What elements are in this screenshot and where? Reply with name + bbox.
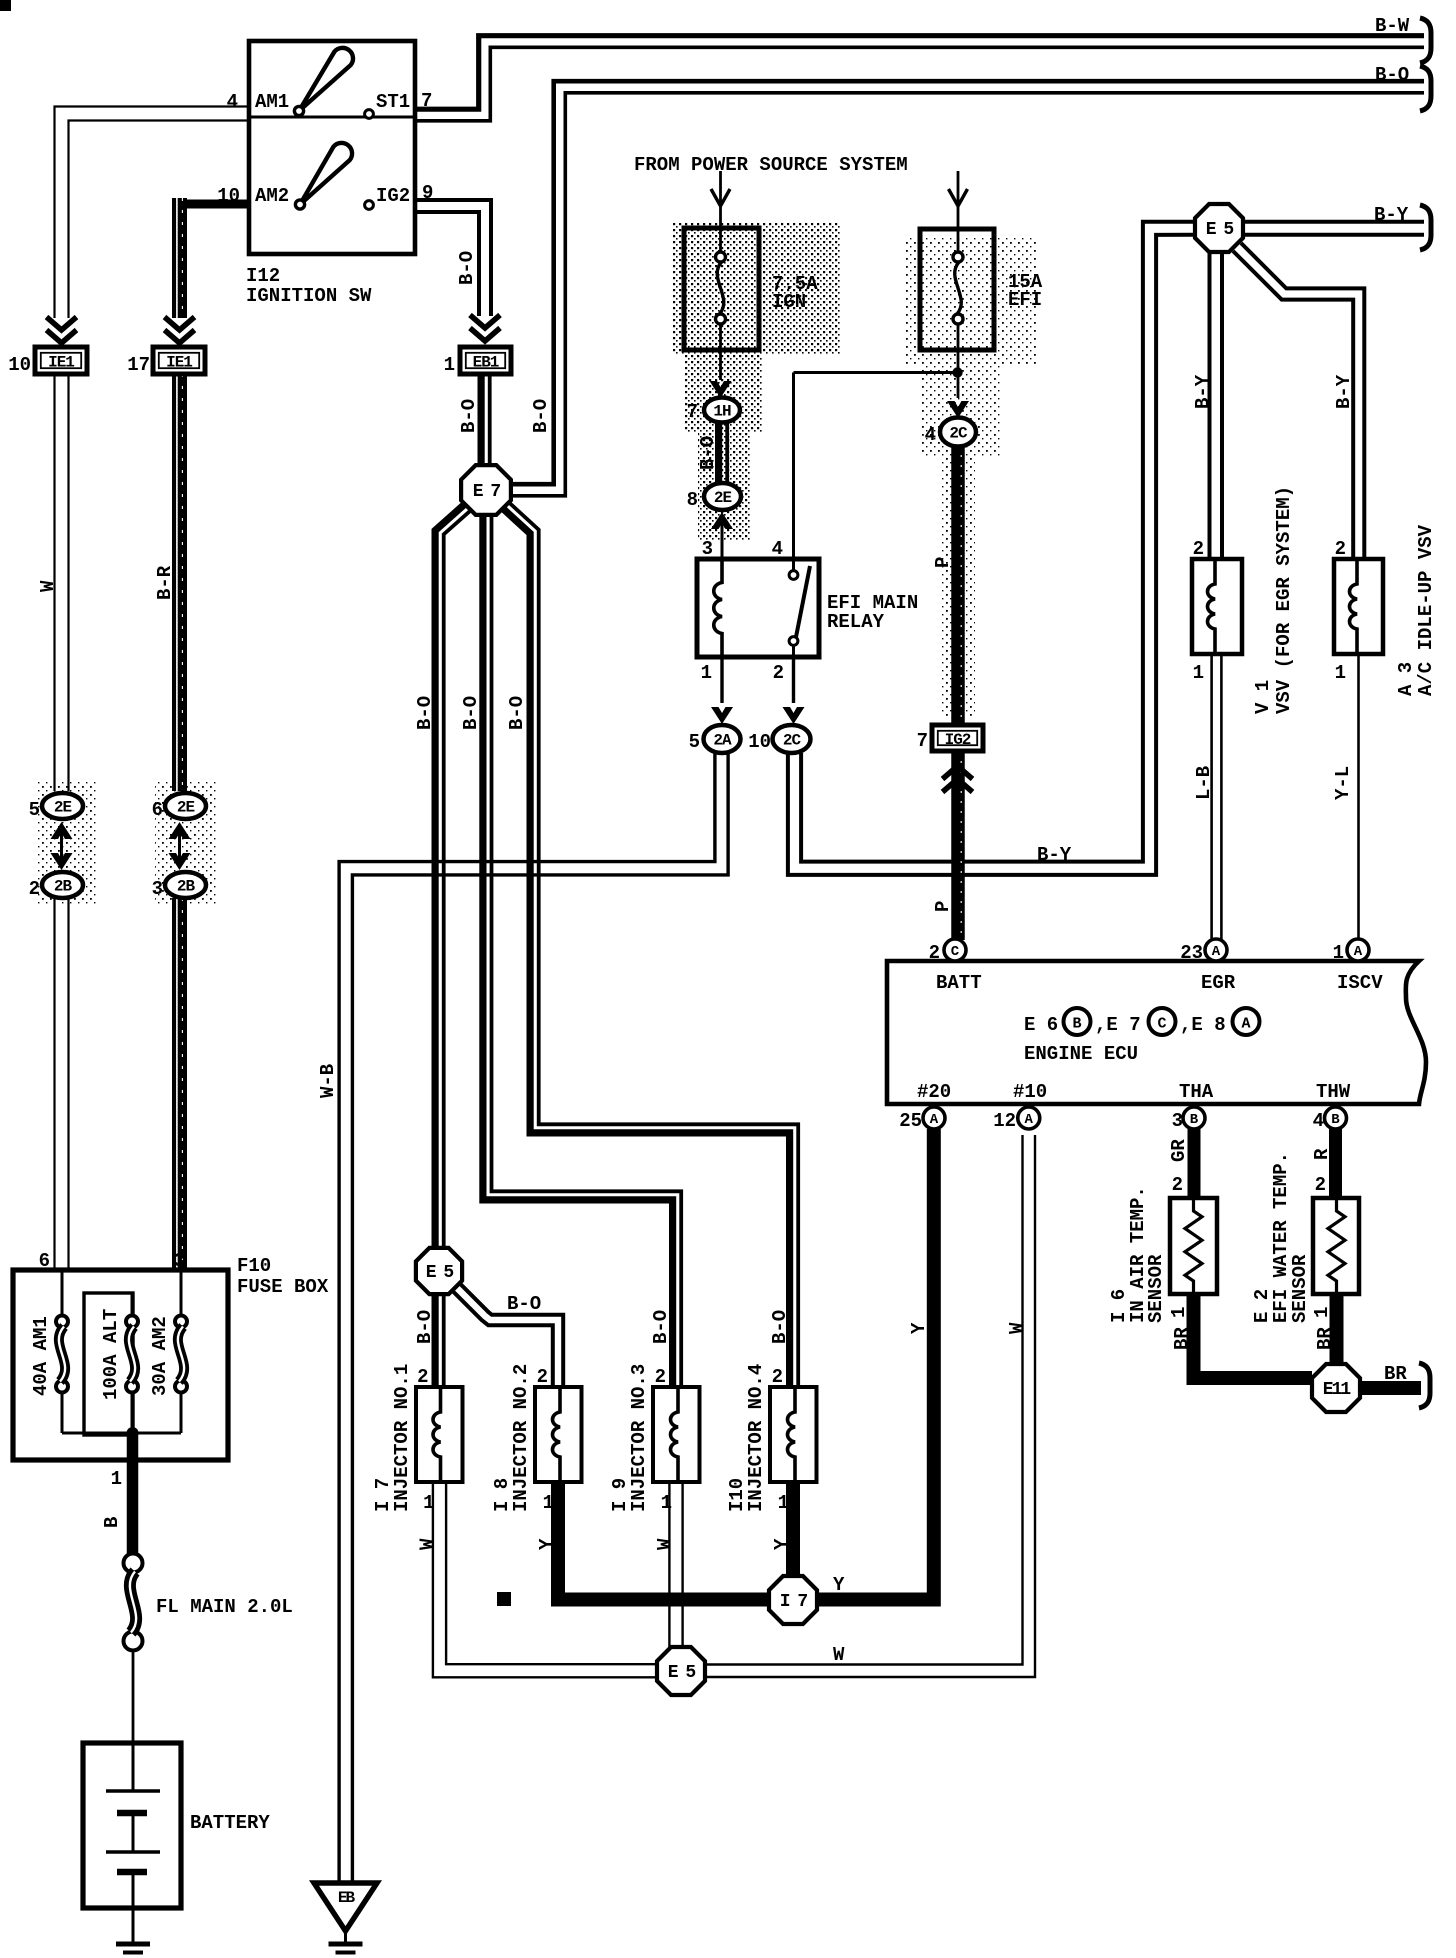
junction connector E5 mid (416, 1248, 462, 1294)
stipple shading around connector 2E/2B left (36, 780, 96, 905)
battery internal wire bottom (132, 1872, 135, 1943)
wire B-Y from E5 to VSV V1 (1220, 252, 1224, 559)
svg-text:A: A (930, 1112, 939, 1128)
svg-text:2: 2 (417, 1366, 428, 1388)
svg-text:25: 25 (899, 1110, 922, 1132)
fuse 7.5A IGN element (716, 252, 726, 262)
ignition switch lever AM2 (300, 143, 352, 205)
svg-text:F10: F10 (237, 1255, 271, 1277)
svg-text:1: 1 (1311, 1307, 1333, 1318)
water temp sensor resistor (1328, 1198, 1345, 1294)
continuation hook B-W (1420, 18, 1431, 63)
ECU pin 4 B (1325, 1107, 1347, 1129)
wire W-B from connector 2A to ground EB (352, 753, 728, 1881)
connector 2E left (42, 793, 83, 819)
fuse 40A AM1 (56, 1316, 68, 1328)
svg-text:ISCV: ISCV (1337, 972, 1383, 994)
svg-text:R: R (1311, 1148, 1333, 1160)
svg-text:E11: E11 (1323, 1380, 1352, 1400)
svg-text:INJECTOR NO.4: INJECTOR NO.4 (745, 1364, 767, 1512)
svg-text:6: 6 (152, 799, 163, 821)
svg-text:BR: BR (1384, 1363, 1407, 1385)
svg-text:W: W (654, 1538, 676, 1550)
svg-text:A: A (1241, 1016, 1250, 1033)
svg-text:1: 1 (444, 354, 455, 376)
stray square mark (497, 1592, 511, 1606)
injector no.2 box I 8 (535, 1387, 582, 1482)
connector 2A pin 5 (704, 725, 741, 753)
arrow pair between 2E and 2B left (51, 822, 73, 839)
svg-text:8: 8 (687, 489, 698, 511)
svg-text:#10: #10 (1013, 1081, 1047, 1103)
svg-text:,E 8: ,E 8 (1180, 1014, 1226, 1036)
svg-text:FUSE BOX: FUSE BOX (237, 1276, 329, 1298)
junction dot below EFI fuse (952, 367, 962, 377)
lead 30A AM2 (180, 1270, 183, 1316)
svg-text:1: 1 (1335, 662, 1346, 684)
wire Y from injector no.2 to junction I7 (558, 1482, 769, 1600)
wire BR from E11 to right edge (1361, 1381, 1421, 1395)
relay coil (714, 559, 722, 657)
EB ground symbol (329, 1942, 363, 1947)
wire from relay pin 1 to connector 2A (720, 657, 723, 703)
svg-text:B-O: B-O (530, 399, 552, 433)
wire B-R from IE1 to connector 2E (172, 374, 187, 791)
svg-text:INJECTOR NO.2: INJECTOR NO.2 (510, 1364, 532, 1512)
battery plate short 2 (117, 1869, 147, 1876)
svg-text:AM1: AM1 (255, 91, 289, 113)
injector no.3 coil (671, 1387, 679, 1482)
wire B-O from 1H to connector 2E (715, 422, 722, 484)
svg-text:W: W (1006, 1322, 1028, 1334)
injector no.3 box I 9 (653, 1387, 700, 1482)
connector EB1 pin 1 (460, 347, 511, 374)
ignition switch lever AM1 (299, 48, 353, 111)
connector IG2 pin 7 (932, 725, 983, 751)
svg-text:IE1: IE1 (48, 354, 74, 372)
svg-text:10: 10 (217, 185, 240, 207)
svg-text:B-Y: B-Y (1374, 204, 1409, 226)
fuse 100A ALT (126, 1316, 138, 1328)
arrow into EFI fuse (949, 189, 968, 206)
svg-text:ST1: ST1 (376, 91, 410, 113)
svg-text:2E: 2E (714, 489, 732, 507)
svg-text:4: 4 (227, 91, 238, 113)
wire B-O from E7 to injector no.4 (501, 507, 790, 1388)
relay switch contact bottom (789, 637, 798, 646)
svg-text:FL MAIN 2.0L: FL MAIN 2.0L (156, 1596, 293, 1618)
svg-text:2E: 2E (54, 799, 72, 817)
VSV V1 coil (1208, 559, 1216, 654)
svg-text:A/C IDLE-UP VSV: A/C IDLE-UP VSV (1415, 524, 1437, 696)
svg-text:E 5: E 5 (426, 1263, 454, 1283)
fuse 30A AM2 (175, 1316, 187, 1328)
svg-text:P: P (932, 901, 954, 912)
air temp sensor I6 box (1170, 1198, 1217, 1294)
wire from power source arrow to IGN fuse (719, 171, 722, 206)
connector IE1 pin 17 (153, 347, 205, 374)
svg-text:W-B: W-B (317, 1064, 339, 1098)
svg-text:RELAY: RELAY (827, 611, 885, 633)
svg-text:BR: BR (1171, 1327, 1193, 1350)
svg-text:Y: Y (908, 1322, 930, 1334)
arrow into EB1 (470, 328, 500, 341)
svg-text:Y-L: Y-L (1332, 766, 1354, 800)
svg-text:100A ALT: 100A ALT (100, 1309, 122, 1400)
wire B-Y from connector 2C to junction E5 (801, 222, 1194, 862)
fuse 7.5A IGN box (684, 228, 759, 350)
svg-text:#20: #20 (917, 1081, 951, 1103)
engine ECU box (887, 961, 1426, 1104)
junction connector E7 (461, 465, 511, 515)
svg-text:2: 2 (1315, 1174, 1326, 1196)
svg-text:2E: 2E (177, 799, 195, 817)
svg-text:IGN: IGN (772, 291, 806, 313)
svg-text:2C: 2C (949, 425, 968, 443)
svg-text:EGR: EGR (1201, 972, 1236, 994)
arrow into IE1 right (165, 330, 195, 343)
battery plate short 1 (117, 1810, 147, 1817)
ignition switch terminal IG2 (365, 201, 374, 210)
svg-text:Y: Y (771, 1538, 793, 1550)
svg-text:3: 3 (1172, 1110, 1183, 1132)
svg-text:B-W: B-W (1375, 15, 1410, 37)
svg-text:1H: 1H (713, 403, 731, 421)
wire B-R from connector 2B to fuse box pin 3 (172, 898, 187, 1272)
svg-text:Y: Y (833, 1574, 845, 1596)
svg-text:B-O: B-O (506, 696, 528, 730)
wire W from ignition switch AM1 to connector IE1 (69, 121, 250, 319)
wire W from E5 to ECU pin 10 (705, 1135, 1023, 1665)
svg-text:B-O: B-O (414, 1310, 436, 1344)
svg-text:1: 1 (543, 1492, 554, 1514)
svg-text:B-O: B-O (769, 1310, 791, 1344)
svg-text:6: 6 (39, 1250, 50, 1272)
wire B-O from E5 to injector no.2 (461, 1284, 564, 1387)
wire B-W from ignition switch ST1 to right edge (415, 36, 1424, 110)
svg-text:4: 4 (772, 538, 783, 560)
svg-text:BATT: BATT (936, 972, 982, 994)
svg-text:W: W (417, 1538, 439, 1550)
svg-text:10: 10 (748, 731, 771, 753)
svg-text:1: 1 (701, 662, 712, 684)
wire GR from ECU pin THA to air temp sensor (1188, 1129, 1201, 1200)
ECU pin 2 C BATT (944, 939, 966, 961)
wire Y from I7 to ECU pin 20 (817, 1129, 934, 1600)
junction connector E11 (1312, 1364, 1360, 1412)
svg-text:BATTERY: BATTERY (190, 1812, 270, 1834)
svg-text:1: 1 (111, 1468, 122, 1490)
svg-text:P: P (932, 557, 954, 568)
wire B-O from E5 to injector no.1 (432, 1294, 439, 1387)
svg-text:B-O: B-O (507, 1293, 541, 1315)
svg-text:2: 2 (929, 942, 940, 964)
svg-text:2: 2 (773, 662, 784, 684)
wire B-O from ignition switch IG2 to connector EB1 (415, 200, 491, 316)
stipple shading along IGN fuse wire (698, 432, 750, 540)
svg-text:B-Y: B-Y (1192, 374, 1214, 409)
svg-text:9: 9 (422, 182, 433, 204)
svg-text:7: 7 (917, 730, 928, 752)
svg-text:1: 1 (1333, 942, 1344, 964)
VSV A3 box (1334, 559, 1383, 654)
arrow into connector 2C efi (947, 401, 969, 418)
svg-text:EB1: EB1 (473, 354, 499, 372)
svg-text:2: 2 (772, 1366, 783, 1388)
relay switch arm (796, 566, 810, 637)
svg-text:I12: I12 (246, 265, 280, 287)
svg-text:2B: 2B (177, 878, 196, 896)
wire from FL MAIN fuse to battery (132, 1650, 135, 1745)
ground triangle EB (314, 1883, 377, 1931)
svg-text:INJECTOR NO.3: INJECTOR NO.3 (628, 1364, 650, 1512)
svg-text:VSV (FOR EGR SYSTEM): VSV (FOR EGR SYSTEM) (1273, 486, 1295, 714)
svg-text:2B: 2B (54, 878, 73, 896)
svg-text:7: 7 (421, 90, 432, 112)
EFI main relay box (697, 559, 819, 657)
svg-text:W: W (37, 580, 59, 592)
connector 2E right (165, 793, 206, 819)
svg-text:A 3: A 3 (1395, 662, 1417, 696)
svg-text:I 7: I 7 (780, 1592, 808, 1612)
ignition switch I12 box (249, 41, 415, 254)
svg-text:B-O: B-O (697, 436, 719, 470)
svg-text:IE1: IE1 (166, 354, 192, 372)
svg-text:ENGINE ECU: ENGINE ECU (1024, 1043, 1138, 1065)
connector IE1 pin 10 (35, 347, 87, 374)
junction connector E5 bottom (657, 1647, 705, 1695)
svg-text:W: W (833, 1644, 845, 1666)
svg-text:THW: THW (1316, 1081, 1351, 1103)
svg-text:THA: THA (1179, 1081, 1214, 1103)
svg-text:,E 7: ,E 7 (1095, 1014, 1141, 1036)
injector no.2 coil (553, 1387, 561, 1482)
svg-text:2: 2 (1193, 538, 1204, 560)
continuation hook B-O (1420, 66, 1431, 111)
wire W from injector no.3 to E5 (681, 1482, 683, 1647)
ECU pin 3 B (1183, 1107, 1205, 1129)
injector no.1 box I 7 (416, 1387, 463, 1482)
svg-text:IGNITION SW: IGNITION SW (246, 285, 372, 307)
svg-text:5: 5 (689, 731, 700, 753)
injector no.4 box I10 (770, 1387, 817, 1482)
svg-text:10: 10 (8, 354, 31, 376)
svg-text:B-O: B-O (414, 696, 436, 730)
wire from power source arrow to EFI fuse (957, 171, 960, 206)
wire from EFI fuse to junction (957, 324, 960, 398)
air temp sensor resistor (1185, 1198, 1202, 1294)
VSV A3 coil (1350, 559, 1358, 654)
fuse bottom bus (62, 1432, 181, 1435)
svg-text:1: 1 (778, 1492, 789, 1514)
svg-text:E 5: E 5 (668, 1663, 696, 1683)
wire from IGN fuse to connector 1H (719, 324, 722, 380)
svg-text:A: A (1025, 1112, 1034, 1128)
svg-text:30A AM2: 30A AM2 (149, 1316, 171, 1396)
wire BR from air temp sensor to junction E11 (1194, 1294, 1313, 1378)
relay pin 2 internal lead (792, 646, 795, 658)
junction connector E5 top right (1195, 204, 1243, 252)
lead 40A AM1 (61, 1270, 64, 1316)
svg-text:V 1: V 1 (1252, 680, 1274, 714)
svg-text:3: 3 (702, 538, 713, 560)
svg-text:B-O: B-O (1375, 64, 1409, 86)
wire B-Y from E5 to right edge (1245, 220, 1424, 224)
fuse box F10 (13, 1270, 228, 1460)
stipple shading along EFI wire (941, 457, 975, 717)
svg-text:40A AM1: 40A AM1 (30, 1316, 52, 1396)
arrow into connector 1H (710, 381, 732, 398)
ECU pin 1 A ISCV (1347, 939, 1369, 961)
svg-text:1: 1 (661, 1492, 672, 1514)
VSV V1 box (1192, 559, 1242, 654)
fuse box inner bracket (84, 1293, 133, 1435)
EB ground stem (344, 1931, 347, 1943)
connector 1H pin 7 (704, 398, 740, 423)
chevron arrow below IG2 (943, 766, 973, 779)
svg-text:2: 2 (537, 1366, 548, 1388)
wire P from IG2 to ECU pin BATT (951, 751, 965, 940)
page corner mark (0, 0, 11, 11)
svg-text:23: 23 (1180, 942, 1203, 964)
svg-text:A: A (1212, 944, 1221, 960)
svg-text:Y: Y (536, 1538, 558, 1550)
svg-text:12: 12 (993, 1110, 1016, 1132)
svg-text:B-O: B-O (460, 696, 482, 730)
wire B from fuse box to FL MAIN fuse (127, 1433, 139, 1556)
svg-text:5: 5 (29, 799, 40, 821)
svg-text:E 7: E 7 (473, 482, 501, 502)
ECU pin 25 A (923, 1107, 945, 1129)
continuation hook BR (1419, 1363, 1430, 1408)
injector no.1 coil (433, 1387, 441, 1482)
svg-text:B: B (101, 1517, 123, 1528)
battery box (83, 1743, 181, 1908)
svg-text:EFI: EFI (1008, 289, 1042, 311)
wire W from connector 2B to fuse box pin 6 (67, 898, 69, 1272)
wire Y-L from A/C VSV to ECU pin ISCV (1357, 654, 1360, 940)
water temp sensor E2 box (1313, 1198, 1359, 1294)
wire B-O from junction E7 to right edge (511, 81, 1424, 484)
svg-text:IG2: IG2 (945, 731, 971, 749)
svg-text:INJECTOR NO.1: INJECTOR NO.1 (391, 1364, 413, 1512)
ECU pin 23 A EGR (1205, 939, 1227, 961)
svg-text:IG2: IG2 (376, 185, 410, 207)
lead 100A ALT (131, 1293, 134, 1316)
wire W from IE1 to connector 2E (67, 374, 69, 791)
junction connector I7 (769, 1576, 817, 1624)
svg-text:C: C (1157, 1016, 1166, 1033)
svg-text:B: B (1072, 1016, 1081, 1033)
svg-text:1: 1 (423, 1492, 434, 1514)
connector 2C pin 4 (940, 418, 976, 447)
svg-text:B: B (1331, 1112, 1340, 1128)
svg-text:17: 17 (127, 354, 150, 376)
wire P from connector 2C to connector IG2 (951, 445, 965, 725)
arrow pair between 2E and 2B right (169, 822, 191, 839)
wire B-R from ignition switch AM2 to connector IE1 (183, 200, 249, 209)
svg-text:1: 1 (1168, 1307, 1190, 1318)
connector 2C pin 10 (773, 725, 811, 753)
stipple shading around IGN fuse (672, 222, 840, 355)
wire BR from water temp sensor to E11 (1330, 1294, 1344, 1364)
svg-text:L-B: L-B (1193, 766, 1215, 800)
relay switch contact top (789, 571, 798, 580)
wire from connector 2E to relay pin 3 (721, 524, 724, 559)
svg-text:E 6: E 6 (1024, 1014, 1058, 1036)
svg-text:2C: 2C (783, 732, 802, 750)
arrow into connector 2C relay (783, 707, 805, 724)
svg-text:A: A (1354, 944, 1363, 960)
battery plate long 2 (106, 1850, 160, 1853)
svg-text:GR: GR (1168, 1139, 1190, 1162)
stipple shading around connector 2E/2B right (155, 780, 217, 905)
wire from relay pin 2 to connector 2C (792, 657, 795, 703)
arrow into connector 2A (711, 707, 733, 724)
svg-text:FROM POWER SOURCE SYSTEM: FROM POWER SOURCE SYSTEM (634, 154, 908, 176)
arrow into IGN fuse (711, 189, 730, 206)
battery ground (116, 1942, 150, 1947)
svg-text:C: C (951, 944, 960, 960)
ECU pin 12 A (1018, 1107, 1040, 1129)
svg-text:SENSOR: SENSOR (1145, 1254, 1167, 1323)
connector 2B right (165, 872, 206, 898)
svg-text:2: 2 (1172, 1174, 1183, 1196)
svg-text:AM2: AM2 (255, 185, 289, 207)
wire Y from injector no.4 to I7 (786, 1482, 800, 1576)
wire B-Y from E5 to A/C idle-up VSV (1241, 243, 1364, 559)
connector 2E pin 8 (704, 483, 741, 510)
wire L-B from VSV V1 to ECU pin EGR (1220, 654, 1223, 940)
arrow below 2E (711, 512, 733, 529)
svg-text:1: 1 (1193, 662, 1204, 684)
fuse 15A EFI element (953, 252, 963, 262)
fusible link FL MAIN 2.0L (124, 1554, 143, 1573)
svg-text:7: 7 (687, 401, 698, 423)
svg-text:2A: 2A (713, 732, 732, 750)
svg-text:B-R: B-R (154, 565, 176, 600)
svg-text:EB: EB (338, 1889, 356, 1907)
svg-text:B-Y: B-Y (1333, 374, 1355, 409)
arrow into IE1 left (47, 330, 77, 343)
svg-text:BR: BR (1314, 1327, 1336, 1350)
junction dot in fuse box (127, 1427, 139, 1439)
ignition switch terminal ST1 (365, 110, 374, 119)
fuse 15A EFI box (920, 229, 994, 350)
continuation hook B-Y (1420, 205, 1431, 250)
wire B-O from E7 to junction E5 (435, 502, 468, 1249)
stipple shading around EFI fuse (905, 238, 1037, 365)
battery internal wire mid (132, 1813, 135, 1852)
wire R from ECU pin THW to water temp sensor (1329, 1129, 1342, 1200)
svg-text:3: 3 (174, 1250, 185, 1272)
svg-text:2: 2 (29, 878, 40, 900)
wire W from injector no.1 to junction E5 (446, 1482, 657, 1664)
injector no.4 coil (788, 1387, 796, 1482)
svg-text:SENSOR: SENSOR (1289, 1254, 1311, 1323)
wire from junction to EFI main relay pin 4 (794, 371, 958, 374)
svg-text:3: 3 (152, 878, 163, 900)
svg-text:B-O: B-O (458, 399, 480, 433)
svg-text:B-Y: B-Y (1037, 844, 1072, 866)
svg-text:E 5: E 5 (1206, 220, 1234, 240)
battery internal wire top (132, 1743, 135, 1791)
svg-text:B-O: B-O (650, 1310, 672, 1344)
connector 2B left (42, 872, 83, 898)
svg-text:B-O: B-O (456, 251, 478, 285)
svg-text:2: 2 (655, 1366, 666, 1388)
wire B-O from E7 to injector no.3 (483, 514, 673, 1387)
